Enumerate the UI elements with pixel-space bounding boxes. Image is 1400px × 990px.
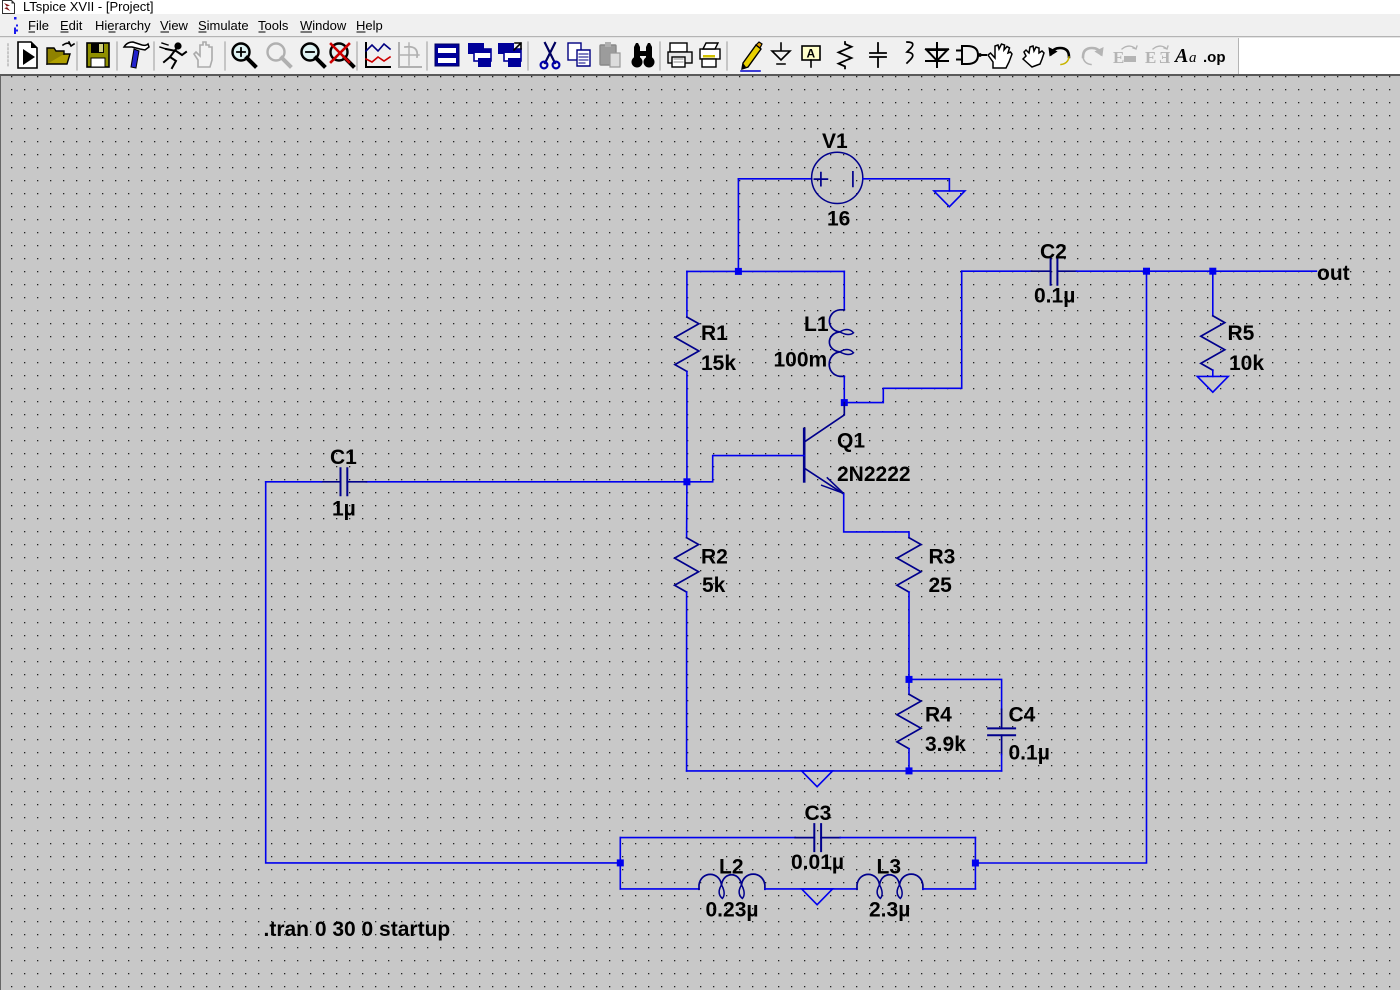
- value 2.3µ: [869, 899, 910, 922]
- ground flag on emitter rail: [802, 771, 833, 787]
- label out: [1317, 262, 1350, 285]
- wire tank right edge: [974, 838, 976, 889]
- svg-text:16: 16: [827, 208, 850, 231]
- svg-text:2N2222: 2N2222: [837, 463, 911, 486]
- inductor L2: [699, 874, 765, 898]
- wire tank bottom rail right: [923, 888, 976, 890]
- label R1: [701, 322, 728, 345]
- svg-text:a: a: [1189, 50, 1197, 66]
- wire L1 top lead: [843, 271, 845, 309]
- wire R5 bottom lead: [1212, 370, 1214, 376]
- node tank right junction: [972, 860, 979, 867]
- svg-text:100m: 100m: [774, 348, 828, 371]
- value 0.23µ: [706, 899, 759, 922]
- wire R1 top lead: [686, 271, 688, 317]
- node collector junction: [841, 399, 848, 406]
- menu child icon: [14, 17, 18, 34]
- resistor R4: [897, 694, 921, 748]
- svg-text:15k: 15k: [701, 352, 736, 375]
- wire L1 bottom to collector node: [843, 376, 845, 402]
- svg-text:Hierarchy: Hierarchy: [95, 18, 151, 33]
- svg-text:E: E: [1145, 48, 1156, 67]
- resistor R5: [1201, 316, 1225, 370]
- wire tank left edge: [619, 838, 621, 889]
- ground flag on tank rail: [802, 889, 833, 905]
- wire C2 to out: [1077, 270, 1317, 272]
- svg-text:2.3µ: 2.3µ: [869, 899, 910, 922]
- svg-text:C4: C4: [1009, 704, 1036, 727]
- spice directive .tran: [264, 918, 451, 941]
- value 3.9k: [925, 733, 966, 756]
- node R4 bottom junction: [906, 767, 913, 774]
- wire R4 bottom lead: [908, 749, 910, 771]
- svg-text:View: View: [160, 18, 189, 33]
- svg-text:R4: R4: [925, 704, 952, 727]
- svg-text:L1: L1: [804, 313, 829, 336]
- node feedback junction: [1143, 268, 1150, 275]
- wire tank bottom rail mid: [765, 888, 857, 890]
- svg-text:C1: C1: [330, 446, 357, 469]
- wire base jog to Q1: [687, 456, 804, 482]
- label C3: [805, 802, 832, 825]
- wire tank top rail left: [620, 837, 795, 839]
- menu bar items: [28, 18, 383, 33]
- wire R2 top lead: [686, 482, 688, 538]
- svg-text:1µ: 1µ: [332, 498, 356, 521]
- wire R3 bottom to R4 node: [908, 592, 910, 679]
- TOOLBAR: [8, 42, 1226, 71]
- title bar icon: [3, 1, 15, 14]
- wire corner down to supply node: [737, 179, 739, 271]
- label R2: [701, 546, 728, 569]
- wire C1 to base node: [366, 481, 687, 483]
- svg-text:0.01µ: 0.01µ: [791, 851, 844, 874]
- wire tank bottom rail left: [620, 888, 699, 890]
- svg-text:Edit: Edit: [60, 18, 83, 33]
- wire tank top rail right: [840, 837, 975, 839]
- wire top rail R1 to L1: [687, 270, 844, 272]
- wire feedback drop right side: [975, 271, 1146, 863]
- label L1: [804, 313, 829, 336]
- inductor L1: [829, 310, 853, 377]
- svg-text:C3: C3: [805, 802, 832, 825]
- ground flag at R5: [1197, 376, 1228, 392]
- value 10k: [1229, 352, 1264, 375]
- value 16: [827, 208, 850, 231]
- wire V1 plus lead to corner: [738, 178, 811, 180]
- capacitor C3: [795, 824, 840, 851]
- resistor R3: [897, 538, 921, 592]
- svg-text:Simulate: Simulate: [198, 18, 249, 33]
- label L3: [877, 856, 902, 879]
- wire R5 top lead: [1212, 271, 1214, 316]
- svg-text:.tran 0 30 0 startup: .tran 0 30 0 startup: [264, 918, 451, 941]
- svg-text:LTspice XVII - [Project]: LTspice XVII - [Project]: [23, 0, 154, 14]
- value 0.1µ C4: [1009, 742, 1050, 765]
- svg-text:R1: R1: [701, 322, 728, 345]
- resistor R1: [675, 317, 699, 371]
- label Q1: [837, 430, 865, 453]
- svg-text:0.1µ: 0.1µ: [1034, 285, 1075, 308]
- svg-text:Help: Help: [356, 18, 383, 33]
- wire emitter ground rail: [687, 770, 1002, 772]
- label V1: [822, 130, 848, 153]
- capacitor C4: [988, 709, 1015, 754]
- svg-text:R2: R2: [701, 546, 728, 569]
- svg-text:0.1µ: 0.1µ: [1009, 742, 1050, 765]
- svg-text:Window: Window: [300, 18, 347, 33]
- svg-text:Tools: Tools: [258, 18, 289, 33]
- node R5 junction: [1209, 268, 1216, 275]
- wire C2 input segment: [962, 270, 1032, 272]
- label C4: [1009, 704, 1036, 727]
- wire C1 left lead: [266, 481, 322, 483]
- voltage source V1: [812, 152, 863, 203]
- label C1: [330, 446, 357, 469]
- value 5k: [702, 574, 726, 597]
- wire collector node to C2 riser: [844, 271, 961, 402]
- svg-text:C2: C2: [1040, 241, 1067, 264]
- svg-text:A: A: [807, 47, 816, 61]
- wire C1 drop to bottom rail: [266, 482, 621, 863]
- value 2N2222: [837, 463, 911, 486]
- svg-text:V1: V1: [822, 130, 848, 153]
- wire R2 bottom to ground rail: [686, 592, 688, 771]
- svg-text:File: File: [28, 18, 49, 33]
- inductor L3: [857, 874, 923, 898]
- label L2: [719, 856, 744, 879]
- svg-text:.op: .op: [1203, 49, 1226, 66]
- svg-text:R3: R3: [929, 546, 956, 569]
- svg-text:0.23µ: 0.23µ: [706, 899, 759, 922]
- value 25: [929, 574, 953, 597]
- node tank left junction: [617, 859, 624, 866]
- svg-text:25: 25: [929, 574, 953, 597]
- svg-text:R5: R5: [1228, 322, 1255, 345]
- svg-text:E: E: [1113, 48, 1124, 67]
- resistor R2: [675, 538, 699, 592]
- title text: [23, 0, 154, 14]
- svg-text:L2: L2: [719, 856, 744, 879]
- svg-text:5k: 5k: [702, 574, 726, 597]
- label R5: [1228, 322, 1255, 345]
- svg-text:Ǝ: Ǝ: [1159, 48, 1171, 67]
- svg-text:Q1: Q1: [837, 430, 865, 453]
- wire Q1 emitter to R3: [844, 494, 909, 538]
- wire R1 bottom to base node: [686, 371, 688, 481]
- value 1µ: [332, 498, 356, 521]
- capacitor C2: [1032, 258, 1077, 285]
- wire R4 top lead: [908, 679, 910, 694]
- wire C4 branch top: [909, 679, 1002, 709]
- label R3: [929, 546, 956, 569]
- ground flag at V1: [934, 191, 965, 207]
- svg-text:3.9k: 3.9k: [925, 733, 966, 756]
- value 100m: [774, 348, 828, 371]
- value 15k: [701, 352, 736, 375]
- svg-text:10k: 10k: [1229, 352, 1264, 375]
- label R4: [925, 704, 952, 727]
- label C2: [1040, 241, 1067, 264]
- node base junction: [683, 478, 690, 485]
- svg-text:A: A: [1173, 45, 1188, 67]
- wire C4 bottom lead: [1001, 754, 1003, 771]
- node R3 R4 C4 junction: [906, 676, 913, 683]
- node supply junction: [735, 268, 742, 275]
- wire V1 minus to ground: [863, 179, 950, 191]
- svg-text:L3: L3: [877, 856, 902, 879]
- value 0.1µ C2: [1034, 285, 1075, 308]
- svg-text:out: out: [1317, 262, 1350, 285]
- value 0.01µ: [791, 851, 844, 874]
- window chrome background: [0, 0, 1400, 76]
- transistor Q1: [804, 403, 844, 494]
- capacitor C1: [321, 468, 366, 495]
